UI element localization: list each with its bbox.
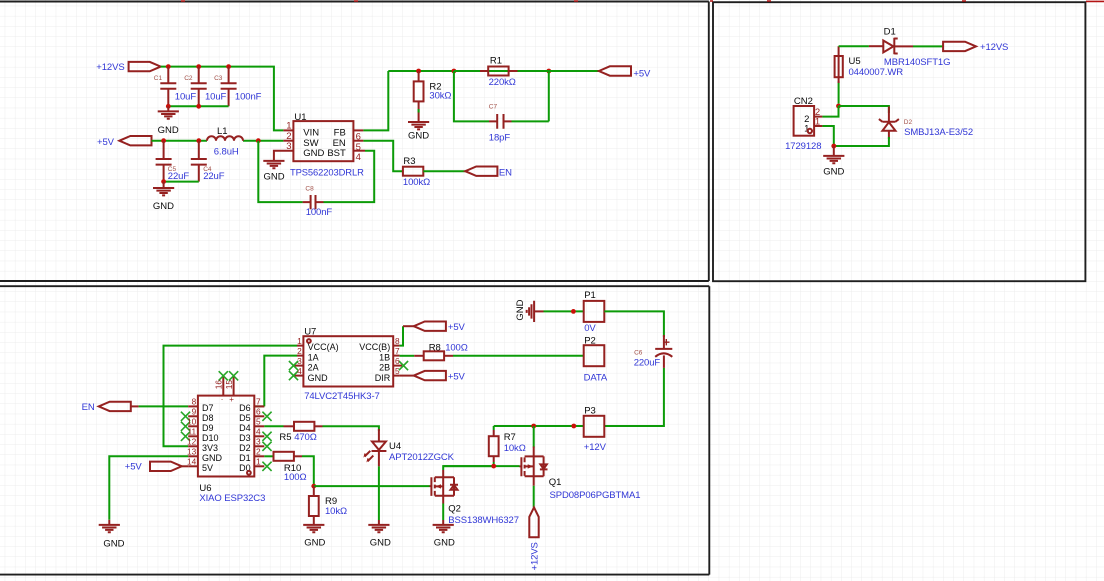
unused X U6 pin9 — [181, 412, 190, 421]
wire FB riser — [363, 71, 388, 130]
svg-text:SMBJ13A-E3/52: SMBJ13A-E3/52 — [904, 127, 973, 138]
op IC U1 body — [293, 121, 353, 161]
junction C3 top — [226, 64, 231, 69]
R2 gnd pin green speck — [418, 109, 420, 113]
diode D2 zener — [879, 119, 899, 139]
capacitor C8 — [303, 195, 324, 209]
svg-text:GND: GND — [153, 201, 174, 212]
svg-text:+5V: +5V — [448, 322, 466, 333]
transistor Q2 — [430, 470, 459, 496]
R9 bottom lead — [313, 516, 315, 525]
IC U6 body — [198, 396, 254, 477]
svg-text:10uF: 10uF — [175, 92, 197, 103]
U1 pin 5 stub — [353, 140, 363, 142]
wire D1 to +12VS flag — [913, 45, 943, 47]
gnd stem top-right — [833, 146, 835, 156]
svg-text:2B: 2B — [379, 363, 390, 373]
U7 pin 1 stub — [297, 345, 303, 347]
U6 right pin 4 stub — [254, 435, 264, 437]
svg-text:+5V: +5V — [97, 137, 115, 148]
U4 gnd stem — [378, 520, 380, 525]
svg-text:D3: D3 — [239, 433, 251, 443]
svg-text:GND: GND — [308, 373, 329, 383]
wire CN2 pin2 to junction — [822, 106, 838, 117]
svg-text:R5: R5 — [279, 432, 291, 443]
ground Q2 — [433, 525, 454, 532]
svg-text:14: 14 — [187, 457, 197, 467]
transistor Q1 — [520, 456, 548, 476]
svg-text:100nF: 100nF — [306, 207, 333, 218]
EN flag lead — [131, 405, 139, 407]
svg-text:Q1: Q1 — [549, 477, 562, 488]
U1 pin 2 stub — [283, 140, 293, 142]
ground U6 — [99, 525, 120, 532]
wire U7 pin8 riser — [400, 326, 403, 345]
svg-text:CN2: CN2 — [794, 96, 813, 107]
svg-text:R1: R1 — [490, 55, 502, 66]
pad P3 — [584, 416, 605, 437]
U7 pin 7 stub — [393, 355, 399, 357]
svg-text:GND: GND — [434, 538, 455, 549]
svg-text:3: 3 — [256, 437, 261, 447]
capacitor C2 — [191, 67, 207, 107]
svg-text:11: 11 — [188, 427, 197, 437]
svg-text:5: 5 — [395, 366, 400, 376]
svg-text:10: 10 — [187, 417, 197, 427]
CN2 pin1 circle — [808, 129, 812, 133]
ground under C5 — [153, 188, 174, 195]
wire C7 left branch — [454, 71, 489, 121]
wire +12VS rail to U1 VIN — [161, 67, 284, 131]
svg-text:+5V: +5V — [448, 371, 466, 382]
wire U4 to gnd — [378, 466, 380, 520]
wire D2 to gnd rail — [834, 137, 889, 146]
sheet frame top-left block — [0, 2, 709, 282]
svg-text:D8: D8 — [202, 413, 214, 423]
U7 pin 8 stub — [393, 345, 399, 347]
ground at U1 pin3 — [263, 161, 284, 168]
unused X U6 pin1 — [262, 462, 271, 471]
CN2 pin 2 stub — [814, 116, 822, 118]
U6 left pin 10 stub — [188, 425, 198, 427]
svg-text:GND: GND — [370, 538, 391, 549]
svg-text:C3: C3 — [214, 75, 223, 82]
svg-text:74LVC2T45HK3-7: 74LVC2T45HK3-7 — [304, 391, 380, 402]
svg-text:GND: GND — [264, 172, 285, 183]
gnd stem under C1 — [167, 106, 169, 111]
resistor R9 — [309, 496, 319, 516]
ground under R2 — [408, 122, 429, 129]
resistor R2 — [414, 81, 424, 101]
Q1 source lead — [533, 476, 535, 486]
R9 top lead — [313, 486, 315, 496]
svg-text:VCC(B): VCC(B) — [359, 342, 390, 352]
svg-text:APT2012ZGCK: APT2012ZGCK — [389, 452, 455, 463]
wire R5 to U4 — [323, 426, 379, 431]
wire gate node to Q2 — [314, 485, 430, 487]
pad P1 — [584, 301, 605, 322]
unused X U6 pin11 — [181, 432, 190, 441]
wire CN2 pin1 to gnd — [822, 126, 833, 146]
svg-text:P1: P1 — [584, 290, 596, 301]
fuse U5 lead top — [838, 46, 840, 83]
svg-text:GND: GND — [515, 299, 526, 320]
svg-text:FB: FB — [334, 128, 346, 139]
svg-text:22uF: 22uF — [168, 171, 190, 182]
unused X U6 pin10 — [181, 422, 190, 431]
ground under C1 — [158, 111, 179, 118]
svg-text:EN: EN — [82, 402, 95, 413]
supply flag +5V DIR — [414, 371, 446, 380]
svg-text:MBR140SFT1G: MBR140SFT1G — [884, 57, 950, 68]
svg-text:SPD08P06PGBTMA1: SPD08P06PGBTMA1 — [550, 490, 641, 501]
svg-text:GND: GND — [823, 166, 844, 177]
svg-text:5: 5 — [256, 417, 261, 427]
R2 top lead — [418, 71, 420, 81]
svg-text:3V3: 3V3 — [202, 443, 218, 453]
wire EN to U6 pin8 — [139, 405, 189, 407]
R10 right lead — [294, 455, 302, 457]
wire R10 to gate node — [302, 456, 314, 486]
D2 cathode lead — [888, 107, 890, 122]
supply flag +5V U7 pin8 — [414, 322, 446, 331]
wire Q1 drain — [533, 426, 535, 448]
capacitor C5 — [156, 141, 172, 182]
svg-text:8: 8 — [192, 397, 197, 407]
wire top rail R2 R1 — [388, 70, 599, 72]
U6 right pin 2 stub — [254, 455, 264, 457]
R2 bottom lead — [418, 101, 420, 122]
wire P1 to C6 — [604, 311, 664, 337]
svg-text:7: 7 — [256, 397, 261, 407]
wire Q2 drain — [443, 466, 494, 470]
U6 right pin 6 stub — [254, 415, 264, 417]
inductor L1 — [207, 136, 243, 141]
svg-text:D9: D9 — [202, 423, 214, 433]
svg-text:P2: P2 — [584, 335, 596, 346]
svg-text:470Ω: 470Ω — [294, 432, 317, 443]
svg-text:10uF: 10uF — [205, 92, 227, 103]
R1 right lead — [509, 70, 518, 72]
supply flag +5V U6 — [150, 462, 182, 471]
svg-text:VIN: VIN — [303, 128, 319, 139]
svg-text:1729128: 1729128 — [785, 141, 821, 152]
U1 pin 6 stub — [353, 129, 363, 131]
+5V flag lead U7 pin8 — [403, 325, 414, 327]
svg-text:10kΩ: 10kΩ — [325, 506, 347, 517]
svg-text:+: + — [229, 395, 234, 404]
svg-text:D1: D1 — [239, 453, 251, 463]
svg-text:C2: C2 — [184, 75, 193, 82]
svg-text:6.8uH: 6.8uH — [214, 146, 239, 157]
wire R8 to P2 — [453, 355, 584, 357]
svg-text:EN: EN — [499, 167, 512, 178]
junction C7 left riser — [452, 69, 457, 74]
wire rail to +5V flag — [549, 70, 599, 72]
U6 right pin 7 stub — [254, 405, 264, 407]
junction C1 top — [166, 64, 171, 69]
svg-text:1A: 1A — [308, 353, 319, 363]
U6 left pin 14 stub — [188, 465, 198, 467]
svg-text:D7: D7 — [202, 403, 214, 413]
wire U6 D4 to R5 — [264, 425, 283, 427]
U7 pin 3 stub — [295, 365, 304, 367]
junction C2 top — [196, 64, 201, 69]
U6 left pin 11 stub — [188, 435, 198, 437]
U6 left pin 8 stub — [188, 405, 198, 407]
U1 pin 3 stub and gnd lead — [274, 151, 294, 161]
R5 left lead — [284, 425, 294, 427]
wire EN from U1 pin5 — [363, 141, 403, 172]
junction C5 top — [161, 138, 166, 143]
svg-text:5V: 5V — [202, 463, 213, 473]
svg-text:100Ω: 100Ω — [445, 342, 468, 353]
svg-text:D6: D6 — [239, 403, 251, 413]
svg-text:+12VS: +12VS — [96, 62, 124, 73]
svg-text:GND: GND — [303, 148, 324, 159]
svg-text:+12VS: +12VS — [980, 42, 1008, 53]
svg-text:+5V: +5V — [125, 461, 143, 472]
svg-text:30kΩ: 30kΩ — [429, 91, 451, 102]
wire C8 to BST — [324, 151, 375, 202]
U6 left pin 13 stub — [188, 455, 198, 457]
resistor R5 — [294, 422, 314, 431]
svg-text:+5V: +5V — [633, 68, 651, 79]
U7 pin 6 stub — [393, 365, 402, 367]
junction C1 bottom — [166, 104, 171, 109]
net flag EN top — [465, 167, 497, 176]
U6 top pin 16 stub — [222, 377, 224, 396]
supply flag +12VS right — [943, 42, 976, 51]
unused X U6 pin6 — [262, 412, 271, 421]
svg-text:8: 8 — [395, 336, 400, 346]
net flag EN bottom — [99, 402, 131, 411]
svg-text:15: 15 — [224, 380, 234, 390]
svg-text:0V: 0V — [584, 323, 596, 334]
U7 pin 4 stub — [295, 375, 304, 377]
U7 pin 5 stub — [393, 375, 399, 377]
svg-text:C1: C1 — [154, 75, 163, 82]
svg-text:L1: L1 — [217, 126, 228, 137]
wire Q2 source to gnd — [442, 504, 444, 521]
svg-text:12: 12 — [187, 437, 197, 447]
ground U4 — [368, 525, 389, 532]
sheet frame top-right block — [713, 2, 1085, 281]
junction fuse CN2 D2 — [836, 104, 841, 109]
wire junction to D2 — [839, 106, 889, 113]
junction C2 bottom — [196, 104, 201, 109]
U6 top pin 15 stub — [233, 377, 235, 396]
svg-text:-: - — [221, 396, 223, 403]
wire fuse to D1 — [839, 45, 869, 47]
P1 gnd stub — [534, 310, 543, 312]
wire SW to C8 — [258, 141, 302, 202]
R7 bottom lead — [493, 456, 495, 462]
svg-text:220kΩ: 220kΩ — [489, 77, 516, 88]
svg-text:D10: D10 — [202, 433, 219, 443]
svg-text:22uF: 22uF — [203, 171, 225, 182]
wire R7 to Q1 gate — [443, 462, 519, 466]
capacitor C3 — [221, 67, 237, 107]
svg-text:10kΩ: 10kΩ — [504, 443, 526, 454]
supply flag +12VS — [129, 62, 161, 71]
U7 pin1 marker circle — [307, 339, 311, 343]
svg-text:6: 6 — [395, 356, 400, 366]
svg-text:C7: C7 — [489, 104, 498, 111]
wire U7 pin2 to U6 D6 — [254, 356, 297, 407]
svg-text:C6: C6 — [634, 350, 643, 357]
resistor R8 — [424, 351, 444, 360]
svg-text:D4: D4 — [239, 423, 251, 433]
svg-text:100kΩ: 100kΩ — [403, 177, 430, 188]
R7 top lead — [493, 430, 495, 436]
svg-text:6: 6 — [256, 407, 261, 417]
IC U7 body — [303, 336, 393, 386]
svg-text:D2: D2 — [239, 443, 251, 453]
svg-text:XIAO ESP32C3: XIAO ESP32C3 — [199, 493, 265, 504]
svg-text:BST: BST — [327, 148, 346, 159]
svg-text:100Ω: 100Ω — [284, 472, 307, 483]
svg-text:3: 3 — [297, 356, 302, 366]
U6 left pin 9 stub — [188, 415, 198, 417]
junction R7 Q1 gate — [491, 464, 496, 469]
wire R1 to junction — [518, 70, 549, 72]
capacitor C6 — [655, 339, 672, 368]
CN2 pin 1 stub — [814, 125, 822, 127]
unused X U7 pin6 — [399, 361, 408, 370]
svg-text:GND: GND — [158, 125, 179, 136]
svg-text:+12VS: +12VS — [529, 542, 540, 570]
red frame tick marks (cropped sheet above) — [181, 0, 1104, 2]
U7 pin 2 stub — [297, 355, 303, 357]
unused X U7 pin4 — [289, 371, 298, 380]
U6 pin0 marker circle — [247, 471, 251, 475]
+5V flag lead DIR — [400, 375, 414, 377]
R1 left lead — [480, 70, 488, 72]
svg-text:0440007.WR: 0440007.WR — [849, 67, 904, 78]
svg-text:4: 4 — [297, 366, 302, 376]
svg-text:2: 2 — [256, 447, 261, 457]
svg-text:1: 1 — [256, 457, 261, 467]
connector CN2 body — [794, 106, 815, 136]
capacitor C7 — [489, 114, 512, 129]
wire C5-C4 bottoms — [164, 181, 199, 183]
supply flag +5V left — [119, 136, 151, 145]
junction C5 bottom — [161, 179, 166, 184]
wire U6 GND pin — [109, 456, 188, 520]
resistor R3 — [403, 167, 423, 176]
junction Q1 drain rail — [531, 424, 536, 429]
svg-text:7: 7 — [395, 346, 400, 356]
svg-text:220uF: 220uF — [634, 358, 661, 369]
svg-text:13: 13 — [187, 447, 197, 457]
unused X U6 pin16 — [219, 371, 228, 380]
wire gnd to P1 — [544, 310, 584, 312]
unused X U7 pin3 — [289, 361, 298, 370]
svg-text:D5: D5 — [239, 413, 251, 423]
LED U4 — [363, 442, 386, 467]
Q2 source lead — [442, 496, 444, 504]
svg-text:1: 1 — [815, 116, 820, 127]
U6 left pin 12 stub — [188, 445, 198, 447]
resistor R1 — [488, 67, 508, 76]
resistor R10 — [274, 452, 294, 461]
svg-text:DATA: DATA — [584, 373, 608, 384]
junction R2 top — [416, 69, 421, 74]
capacitor C4 — [191, 141, 207, 182]
resistor R7 — [489, 436, 499, 456]
svg-text:U4: U4 — [389, 441, 401, 452]
supply flag +5V right — [599, 66, 631, 75]
sheet frame bottom block — [0, 286, 709, 574]
svg-text:18pF: 18pF — [489, 132, 511, 143]
svg-text:DIR: DIR — [375, 373, 391, 383]
wire U7 pin7 to R8 — [400, 355, 415, 357]
svg-text:Q2: Q2 — [448, 503, 461, 514]
svg-text:U7: U7 — [304, 327, 316, 338]
svg-text:R3: R3 — [403, 156, 415, 167]
svg-text:R7: R7 — [504, 432, 516, 443]
svg-text:100nF: 100nF — [235, 92, 262, 103]
svg-text:4: 4 — [256, 427, 261, 437]
wire rail to R1 — [454, 70, 480, 72]
svg-text:GND: GND — [408, 131, 429, 142]
svg-text:16: 16 — [214, 380, 224, 390]
supply flag +12VS bottom — [529, 507, 538, 537]
gnd stem under C5 — [163, 182, 165, 188]
wire CN2 to fuse — [838, 81, 840, 104]
ground top-right — [823, 156, 844, 163]
wire Q1 source to flag — [533, 486, 535, 508]
R8 right lead — [444, 355, 453, 357]
capacitor C1 — [160, 67, 176, 107]
svg-text:2: 2 — [297, 346, 302, 356]
svg-text:2A: 2A — [308, 363, 319, 373]
svg-text:9: 9 — [192, 407, 197, 417]
pad P2 — [584, 345, 605, 366]
svg-text:1: 1 — [286, 121, 291, 132]
C6 top lead — [663, 335, 665, 349]
junction R1 right — [546, 69, 551, 74]
U1 pin 4 stub — [353, 150, 365, 152]
U6 right pin 3 stub — [254, 445, 264, 447]
Q2 gnd stem — [442, 520, 444, 525]
svg-text:P3: P3 — [584, 405, 596, 416]
svg-text:GND: GND — [103, 538, 124, 549]
svg-text:C8: C8 — [305, 185, 314, 192]
junction R10 R9 gate — [311, 484, 316, 489]
svg-text:3: 3 — [286, 141, 291, 152]
svg-text:D2: D2 — [904, 119, 913, 126]
svg-text:VCC(A): VCC(A) — [308, 342, 339, 352]
junction P1 wire — [571, 309, 576, 314]
svg-text:R8: R8 — [429, 342, 441, 353]
diode D1 — [883, 38, 913, 55]
wire C7 right branch — [512, 71, 549, 121]
junction P3 left — [571, 424, 576, 429]
svg-text:GND: GND — [202, 453, 223, 463]
ground R9 — [303, 525, 324, 532]
wire U6 D1 to R10 — [264, 455, 273, 457]
svg-text:D1: D1 — [884, 26, 896, 37]
R5 right lead — [314, 425, 322, 427]
junction L1 right — [256, 138, 261, 143]
U6 right pin 1 stub — [254, 465, 264, 467]
wire C1-C2-C3 bottoms — [168, 105, 228, 107]
svg-text:U1: U1 — [294, 112, 306, 123]
svg-text:1: 1 — [297, 336, 302, 346]
wire +5V rail — [152, 140, 284, 142]
